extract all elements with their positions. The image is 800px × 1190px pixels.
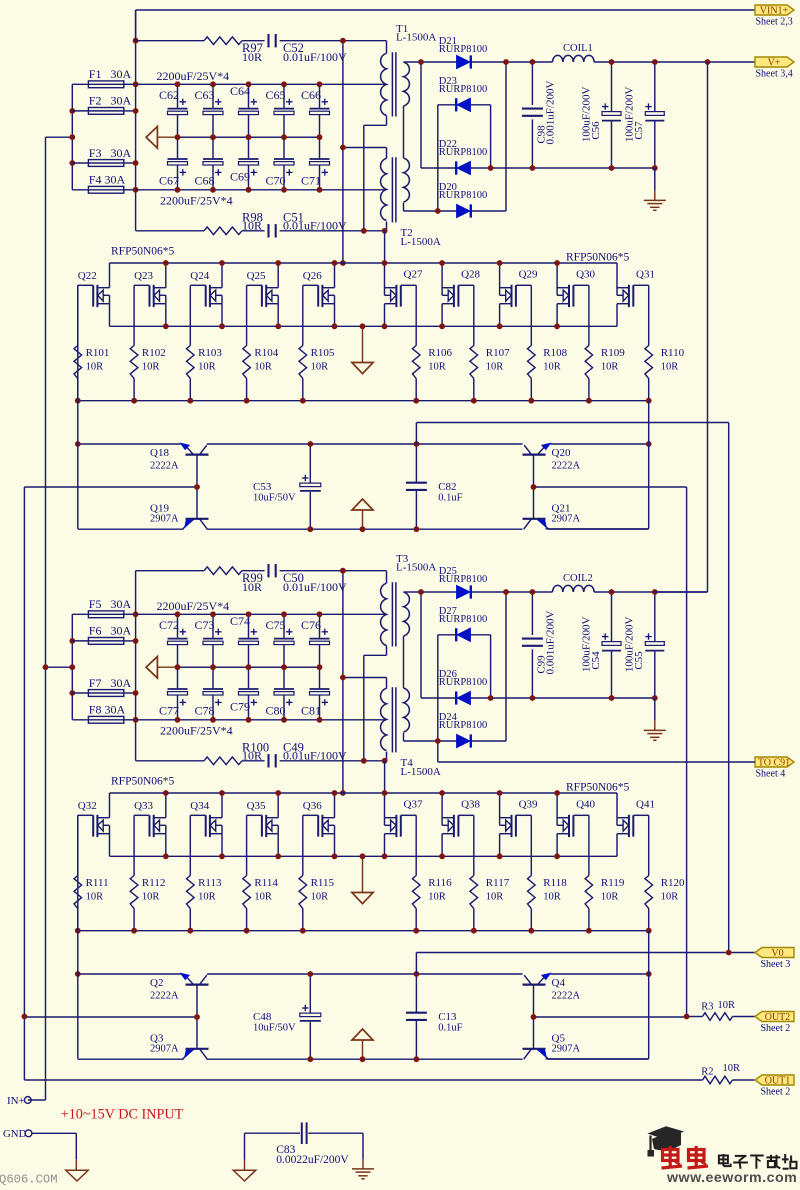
- ground C83 left: [233, 1170, 255, 1181]
- svg-text:L-1500A: L-1500A: [401, 766, 441, 778]
- fuse F3 30A: [88, 146, 131, 167]
- capacitor C50: [269, 564, 348, 594]
- node V0 flag: [755, 948, 794, 971]
- svg-text:Q24: Q24: [190, 270, 209, 282]
- transistor Q28: [442, 263, 480, 326]
- diode D20: [439, 182, 487, 217]
- capacitor C79: [230, 667, 259, 720]
- watermark www.eeworm.com: [666, 1170, 797, 1186]
- svg-text:R115: R115: [311, 877, 335, 889]
- svg-text:C78: C78: [194, 704, 214, 718]
- svg-text:R120: R120: [661, 877, 685, 889]
- transistor Q31: [617, 263, 655, 326]
- svg-text:RFP50N06*5: RFP50N06*5: [566, 782, 630, 794]
- svg-text:COIL2: COIL2: [563, 573, 593, 584]
- junction Q40 buses: [554, 790, 592, 934]
- resistor R3: [701, 1000, 735, 1021]
- wire base vertical x687: [686, 487, 688, 1017]
- transistor Q19: [150, 502, 209, 529]
- svg-text:C69: C69: [230, 170, 250, 184]
- junction transformer bottom: [361, 228, 388, 234]
- svg-text:10R: 10R: [428, 362, 446, 373]
- power port arrow up: [352, 499, 373, 529]
- svg-text:10R: 10R: [601, 892, 619, 903]
- svg-text:F8 30A: F8 30A: [89, 703, 126, 717]
- svg-text:10R: 10R: [242, 580, 262, 594]
- svg-text:C82: C82: [438, 481, 456, 493]
- wire D27 row: [438, 635, 491, 762]
- svg-text:L-1500A: L-1500A: [401, 236, 441, 248]
- wire T1 primary bottom: [364, 116, 387, 231]
- resistor R114: [243, 876, 279, 931]
- junction Q34 buses: [187, 790, 225, 934]
- svg-text:Q2: Q2: [150, 977, 163, 989]
- svg-text:C79: C79: [230, 700, 250, 714]
- wire fuse left rail: [46, 614, 73, 720]
- svg-text:GND: GND: [3, 1128, 27, 1140]
- junction Q38 buses: [439, 790, 476, 934]
- svg-text:COIL1: COIL1: [563, 43, 593, 54]
- wire C83 left lead: [244, 1133, 246, 1170]
- wire gate Q29: [530, 285, 532, 345]
- svg-text:2222A: 2222A: [552, 460, 581, 471]
- junction Q31 buses: [0, 0, 1, 1]
- transistor Q25: [247, 263, 279, 326]
- wire D26 row: [421, 697, 655, 699]
- svg-text:C56: C56: [590, 121, 602, 140]
- resistor R97: [204, 37, 263, 64]
- svg-text:C55: C55: [633, 651, 645, 670]
- svg-text:10R: 10R: [311, 892, 329, 903]
- wire D20 row: [404, 62, 507, 211]
- wire gate Q26: [302, 285, 304, 345]
- wire snubber top: [136, 41, 387, 54]
- svg-text:10R: 10R: [198, 892, 216, 903]
- label cap bank top: [157, 69, 230, 83]
- wire D-top branch: [420, 592, 422, 698]
- capacitor C68: [194, 137, 223, 190]
- svg-text:Q19: Q19: [150, 502, 169, 514]
- resistor R109: [585, 346, 625, 401]
- wire T4 primary top: [343, 678, 387, 689]
- resistor R105: [299, 346, 335, 401]
- wire rectifier output TOC9: [404, 591, 708, 593]
- junction main rail: [133, 611, 139, 722]
- transistor Q41: [617, 793, 655, 856]
- capacitor C98: [522, 62, 557, 168]
- capacitor C53: [253, 444, 321, 529]
- wire F4 30A leads: [72, 189, 135, 191]
- svg-text:RFP50N06*5: RFP50N06*5: [566, 252, 630, 264]
- capacitor C66: [301, 84, 330, 137]
- svg-text:C62: C62: [159, 88, 179, 102]
- svg-text:2907A: 2907A: [150, 1044, 179, 1055]
- capacitor C13: [406, 974, 463, 1059]
- wire OUT2 feed: [687, 1016, 755, 1018]
- svg-text:Q5: Q5: [552, 1032, 566, 1044]
- svg-text:RURP8100: RURP8100: [439, 720, 487, 731]
- svg-text:R107: R107: [486, 347, 510, 359]
- resistor R117: [470, 876, 510, 931]
- junction C63 rails: [210, 81, 216, 192]
- wire C83 right lead: [362, 1133, 364, 1169]
- wire gate Q24: [189, 285, 191, 345]
- capacitor C81: [301, 667, 330, 720]
- junction filter: [530, 589, 658, 701]
- wire VIN1+ input: [136, 10, 755, 41]
- svg-text:R102: R102: [142, 347, 166, 359]
- wire snubber vertical V1: [342, 571, 344, 793]
- label cap bank bottom: [160, 723, 233, 737]
- svg-text:Sheet 2: Sheet 2: [761, 1087, 791, 1098]
- svg-text:R101: R101: [86, 347, 110, 359]
- junction Q41 buses: [0, 0, 1, 1]
- fuse F4 30A: [88, 173, 125, 194]
- wire gate Q33: [133, 815, 135, 875]
- svg-text:F2 30A: F2 30A: [89, 94, 132, 108]
- junction Q29 buses: [497, 260, 534, 404]
- fuse F5 30A: [88, 597, 131, 618]
- node GND pad: [3, 1128, 76, 1170]
- wire cap top rail: [136, 83, 387, 85]
- label RFP50N06*5 left: [111, 776, 175, 788]
- wire lower emitter join right: [546, 931, 649, 1059]
- ground filter: [644, 698, 666, 740]
- node OUT2 flag: [755, 1012, 794, 1035]
- wire F1 30A leads: [72, 83, 135, 85]
- wire OUT1 feed: [24, 1079, 755, 1081]
- wire gate Q41: [648, 815, 650, 875]
- svg-text:R3: R3: [701, 1001, 713, 1012]
- resistor R102: [130, 346, 166, 401]
- svg-text:2200uF/25V*4: 2200uF/25V*4: [160, 723, 233, 737]
- node OUT1 flag: [755, 1075, 794, 1098]
- label cap bank top: [157, 599, 230, 613]
- junction Q23 buses: [131, 260, 169, 404]
- capacitor C56: [580, 62, 621, 168]
- junction rectifier: [418, 59, 509, 214]
- wire gate Q36: [302, 815, 304, 875]
- svg-text:C70: C70: [265, 174, 285, 188]
- svg-text:Q32: Q32: [78, 800, 97, 812]
- transistor Q2: [150, 973, 209, 1049]
- svg-text:R106: R106: [428, 347, 452, 359]
- svg-text:Q31: Q31: [636, 269, 655, 281]
- wire gate Q39: [530, 815, 532, 875]
- inductor COIL2: [553, 573, 595, 592]
- capacitor C82: [406, 444, 463, 529]
- transistor Q21: [523, 502, 581, 529]
- transistor Q30: [557, 263, 595, 326]
- svg-text:10R: 10R: [254, 892, 272, 903]
- transformer T2: [381, 157, 441, 248]
- wire emitter join right x649: [546, 401, 649, 529]
- transistor Q38: [442, 793, 480, 856]
- wire MOSFET source bus: [110, 855, 618, 857]
- resistor R101: [74, 346, 109, 401]
- wire emitter rail top: [78, 443, 649, 445]
- wire snubber bottom: [136, 230, 385, 232]
- wire base vertical x24: [23, 487, 25, 1080]
- wire T2 primary top: [343, 148, 387, 159]
- svg-text:Q40: Q40: [576, 799, 595, 811]
- wire base rail: [24, 1016, 686, 1018]
- svg-text:10R: 10R: [543, 362, 561, 373]
- junction Q25 buses: [244, 260, 281, 404]
- svg-text:Sheet 3,4: Sheet 3,4: [756, 69, 793, 80]
- junction Q36 buses: [300, 790, 338, 934]
- wire main left rail: [135, 571, 137, 761]
- node VIN1+ flag: [755, 5, 794, 28]
- junction V0: [726, 950, 732, 956]
- transformer T3: [381, 553, 437, 647]
- svg-text:Q21: Q21: [552, 502, 571, 514]
- wire F5 30A leads: [72, 613, 135, 615]
- capacitor C76: [301, 614, 330, 667]
- wire V0 vertical x729: [416, 423, 728, 953]
- junction Q27 buses: [382, 260, 420, 404]
- power port arrow up: [352, 1029, 373, 1059]
- wire IN+ vertical x45: [28, 137, 46, 1100]
- svg-text:R104: R104: [254, 347, 278, 359]
- svg-text:2200uF/25V*4: 2200uF/25V*4: [157, 69, 230, 83]
- diode D21: [439, 36, 487, 69]
- resistor R2: [701, 1063, 740, 1084]
- svg-text:0.001uF/200V: 0.001uF/200V: [545, 611, 557, 675]
- wire MOSFET drain bus: [110, 792, 618, 794]
- svg-text:2907A: 2907A: [150, 514, 179, 525]
- ground filter: [644, 168, 666, 210]
- svg-text:R114: R114: [254, 877, 278, 889]
- svg-text:www.eeworm.com: www.eeworm.com: [666, 1170, 797, 1185]
- svg-text:2222A: 2222A: [150, 460, 179, 471]
- power port arrow: [146, 127, 157, 149]
- resistor R111: [74, 876, 109, 931]
- junction Q28 buses: [439, 260, 476, 404]
- junction Q26 buses: [300, 260, 338, 404]
- svg-text:10R: 10R: [543, 892, 561, 903]
- svg-text:Q22: Q22: [78, 270, 97, 282]
- wire MOSFET drain bus: [110, 262, 618, 264]
- svg-text:RURP8100: RURP8100: [439, 677, 487, 688]
- capacitor C64: [230, 84, 259, 137]
- svg-text:F1 30A: F1 30A: [89, 67, 132, 81]
- wire gate Q37: [415, 815, 417, 875]
- wire snubber vertical V1: [342, 41, 344, 263]
- svg-text:VIN1+: VIN1+: [760, 6, 789, 17]
- svg-text:Q29: Q29: [519, 269, 538, 281]
- transistor Q5: [523, 1032, 581, 1059]
- svg-text:10R: 10R: [661, 362, 679, 373]
- wire F7 30A leads: [72, 692, 135, 694]
- resistor R120: [645, 876, 685, 931]
- wire gate Q25: [246, 285, 248, 345]
- svg-text:C53: C53: [253, 481, 272, 493]
- junction Q24 buses: [187, 260, 225, 404]
- svg-text:OUT2: OUT2: [765, 1012, 791, 1023]
- wire gate resistor bus: [78, 930, 649, 932]
- wire rectifier output V+: [404, 61, 756, 63]
- junction C65 rails: [281, 81, 287, 192]
- fuse F7 30A: [88, 676, 131, 697]
- capacitor C69: [230, 137, 259, 190]
- svg-text:0.0022uF/200V: 0.0022uF/200V: [276, 1154, 349, 1166]
- svg-text:Q33: Q33: [134, 800, 153, 812]
- svg-text:TO C91: TO C91: [758, 758, 790, 769]
- diode D23: [439, 76, 487, 111]
- resistor R104: [243, 346, 279, 401]
- wire gate Q40: [588, 815, 590, 875]
- capacitor C67: [159, 137, 188, 190]
- transistor Q33: [134, 793, 166, 856]
- svg-text:C71: C71: [301, 174, 321, 188]
- svg-text:Q38: Q38: [461, 799, 480, 811]
- capacitor C99: [522, 592, 557, 698]
- wire cap bottom rail: [136, 189, 387, 191]
- svg-text:C54: C54: [590, 651, 602, 670]
- diode D24: [439, 712, 487, 747]
- svg-text:C63: C63: [194, 88, 214, 102]
- svg-text:2907A: 2907A: [552, 1044, 581, 1055]
- svg-text:Sheet 2,3: Sheet 2,3: [756, 17, 793, 28]
- wire gate resistor bus: [78, 400, 649, 402]
- junction Q30 buses: [554, 260, 592, 404]
- svg-text:10R: 10R: [718, 1000, 736, 1011]
- power port arrow down: [352, 856, 373, 903]
- junction resistor bus ends: [75, 928, 652, 934]
- svg-text:10R: 10R: [723, 1063, 741, 1074]
- label RFP50N06*5 right: [566, 252, 630, 264]
- capacitor C74: [230, 614, 259, 667]
- transistor Q26: [303, 263, 335, 326]
- svg-text:R112: R112: [142, 877, 165, 889]
- svg-text:V0: V0: [771, 948, 783, 959]
- resistor R112: [130, 876, 165, 931]
- transistor Q24: [190, 263, 222, 326]
- svg-text:RURP8100: RURP8100: [439, 574, 487, 585]
- transformer T1: [381, 23, 437, 117]
- svg-text:C68: C68: [194, 174, 214, 188]
- svg-text:F7 30A: F7 30A: [89, 676, 132, 690]
- svg-text:C72: C72: [159, 618, 179, 632]
- wire bottom to gate bus: [384, 231, 386, 263]
- transistor Q35: [247, 793, 279, 856]
- svg-text:2200uF/25V*4: 2200uF/25V*4: [157, 599, 230, 613]
- diode D25: [439, 566, 487, 599]
- wire gate Q34: [189, 815, 191, 875]
- capacitor C83: [245, 1122, 364, 1166]
- junction V+ rail right: [705, 59, 711, 65]
- wire gate Q30: [588, 285, 590, 345]
- svg-text:0.1uF: 0.1uF: [438, 1023, 462, 1034]
- wire cap mid rail: [157, 666, 320, 668]
- svg-text:Q41: Q41: [636, 799, 655, 811]
- svg-text:Q25: Q25: [247, 270, 266, 282]
- transistor Q40: [557, 793, 595, 856]
- svg-text:F3 30A: F3 30A: [89, 146, 132, 160]
- svg-text:Q35: Q35: [247, 800, 266, 812]
- wire T3 secondary link: [403, 636, 405, 688]
- label RFP50N06*5 right: [566, 782, 630, 794]
- svg-text:RFP50N06*5: RFP50N06*5: [111, 776, 175, 788]
- wire F3 30A leads: [72, 162, 135, 164]
- resistor R110: [645, 346, 685, 401]
- fuse F2 30A: [88, 94, 131, 115]
- transistor Q27: [385, 263, 423, 326]
- wire TO C91 feed: [438, 761, 755, 763]
- junction C62 rails: [175, 81, 181, 192]
- svg-text:Q27: Q27: [404, 269, 423, 281]
- fuse F1 30A: [88, 67, 131, 88]
- svg-text:10R: 10R: [86, 362, 104, 373]
- svg-text:V+: V+: [768, 58, 781, 69]
- svg-text:C76: C76: [301, 618, 321, 632]
- svg-text:C13: C13: [438, 1011, 457, 1023]
- wire snubber top: [136, 571, 387, 584]
- wire D-top branch: [420, 62, 422, 168]
- svg-text:IN+: IN+: [7, 1095, 25, 1107]
- svg-text:10uF/50V: 10uF/50V: [253, 493, 296, 504]
- resistor R116: [412, 876, 452, 931]
- capacitor C80: [265, 667, 294, 720]
- transistor Q18: [150, 443, 209, 519]
- junction V1: [340, 568, 346, 796]
- capacitor C63: [194, 84, 223, 137]
- svg-text:10uF/50V: 10uF/50V: [253, 1023, 296, 1034]
- wire gate Q32: [77, 815, 79, 875]
- wire left emitter rail lower x78: [77, 815, 79, 1059]
- svg-text:Q34: Q34: [190, 800, 209, 812]
- svg-text:2200uF/25V*4: 2200uF/25V*4: [160, 193, 233, 207]
- capacitor C65: [265, 84, 294, 137]
- capacitor C57: [624, 62, 665, 168]
- svg-text:R119: R119: [601, 877, 625, 889]
- resistor R113: [187, 876, 223, 931]
- junction arrow stem: [360, 853, 366, 859]
- transistor Q20: [523, 443, 581, 519]
- svg-text:Q30: Q30: [576, 269, 595, 281]
- svg-text:0.1uF: 0.1uF: [438, 493, 462, 504]
- svg-text:10R: 10R: [198, 362, 216, 373]
- svg-text:Q28: Q28: [461, 269, 480, 281]
- svg-text:10R: 10R: [254, 362, 272, 373]
- capacitor C71: [301, 137, 330, 190]
- wire gate Q38: [473, 815, 475, 875]
- junction filter: [530, 59, 658, 171]
- capacitor C70: [265, 137, 294, 190]
- svg-text:F4 30A: F4 30A: [89, 173, 126, 187]
- resistor R98: [204, 210, 263, 234]
- svg-text:0.01uF/100V: 0.01uF/100V: [283, 749, 347, 763]
- svg-text:10R: 10R: [311, 362, 329, 373]
- resistor R99: [204, 567, 263, 594]
- svg-text:R111: R111: [86, 877, 109, 889]
- capacitor C77: [159, 667, 188, 720]
- wire fuse left rail: [46, 84, 73, 190]
- wire C13 to V0: [416, 953, 755, 975]
- svg-text:C77: C77: [159, 704, 179, 718]
- wire gate Q23: [133, 285, 135, 345]
- junction Q37 buses: [382, 790, 420, 934]
- transistor Q4: [523, 973, 581, 1049]
- junction rectifier: [418, 589, 509, 744]
- transistor Q34: [190, 793, 222, 856]
- wire cap mid rail: [157, 136, 320, 138]
- wire cap top rail: [136, 613, 387, 615]
- resistor R100: [204, 740, 269, 764]
- svg-text:10R: 10R: [242, 219, 262, 233]
- junction driver: [75, 971, 652, 1062]
